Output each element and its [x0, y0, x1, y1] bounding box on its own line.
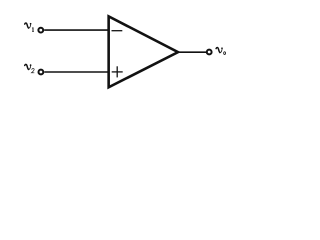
node v2 label — [25, 64, 35, 73]
terminal circle v1 — [38, 28, 43, 33]
wire v1 to inverting input — [44, 29, 108, 31]
wire v2 to non-inverting input — [44, 71, 108, 73]
node v1 label — [25, 23, 34, 32]
op-amp U1 triangle — [109, 16, 178, 87]
wire output — [177, 51, 206, 53]
node vo label — [216, 47, 225, 54]
plus sign non-inverting input — [112, 66, 123, 77]
terminal circle vo — [207, 50, 212, 55]
terminal circle v2 — [39, 70, 44, 75]
minus sign inverting input — [112, 30, 123, 32]
